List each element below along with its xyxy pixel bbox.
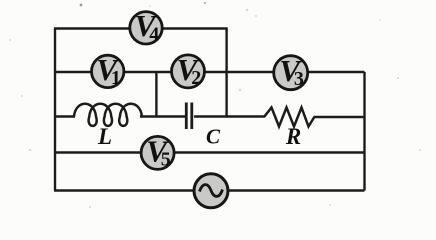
voltmeter V4	[130, 8, 162, 45]
svg-text:2: 2	[191, 67, 201, 89]
wire: main branch from R to right rail	[314, 116, 365, 118]
svg-text:5: 5	[161, 148, 171, 170]
wire: junction vertical between V1 and V2 down to main branch	[155, 72, 157, 117]
voltmeter V3	[274, 53, 308, 90]
svg-text:4: 4	[149, 23, 159, 45]
capacitor C plates	[186, 103, 192, 130]
svg-text:L: L	[97, 124, 112, 149]
voltmeter V2	[172, 52, 205, 89]
inductor L	[74, 104, 142, 126]
wire: main branch lead to inductor	[54, 115, 75, 117]
svg-text:R: R	[285, 124, 301, 149]
wire: top branch (V4 loop)	[54, 27, 228, 29]
wire: V5 branch	[54, 151, 365, 153]
svg-text:C: C	[206, 125, 221, 149]
AC source	[194, 174, 228, 208]
resistor R zigzag	[264, 108, 314, 127]
svg-text:3: 3	[294, 68, 304, 90]
wire: right rail	[363, 72, 365, 191]
voltmeter V5	[141, 133, 174, 170]
voltmeter V1	[92, 52, 124, 89]
wire: upper meter branch V1 V2 V3	[54, 71, 365, 73]
wire: main branch between L and C	[140, 115, 185, 117]
svg-text:1: 1	[111, 67, 121, 89]
wire: junction vertical from V4 loop down to main branch	[225, 29, 227, 118]
wire: main branch between C and R	[194, 115, 265, 117]
wire: bottom branch with source	[54, 189, 365, 191]
wire: left rail	[54, 29, 56, 191]
